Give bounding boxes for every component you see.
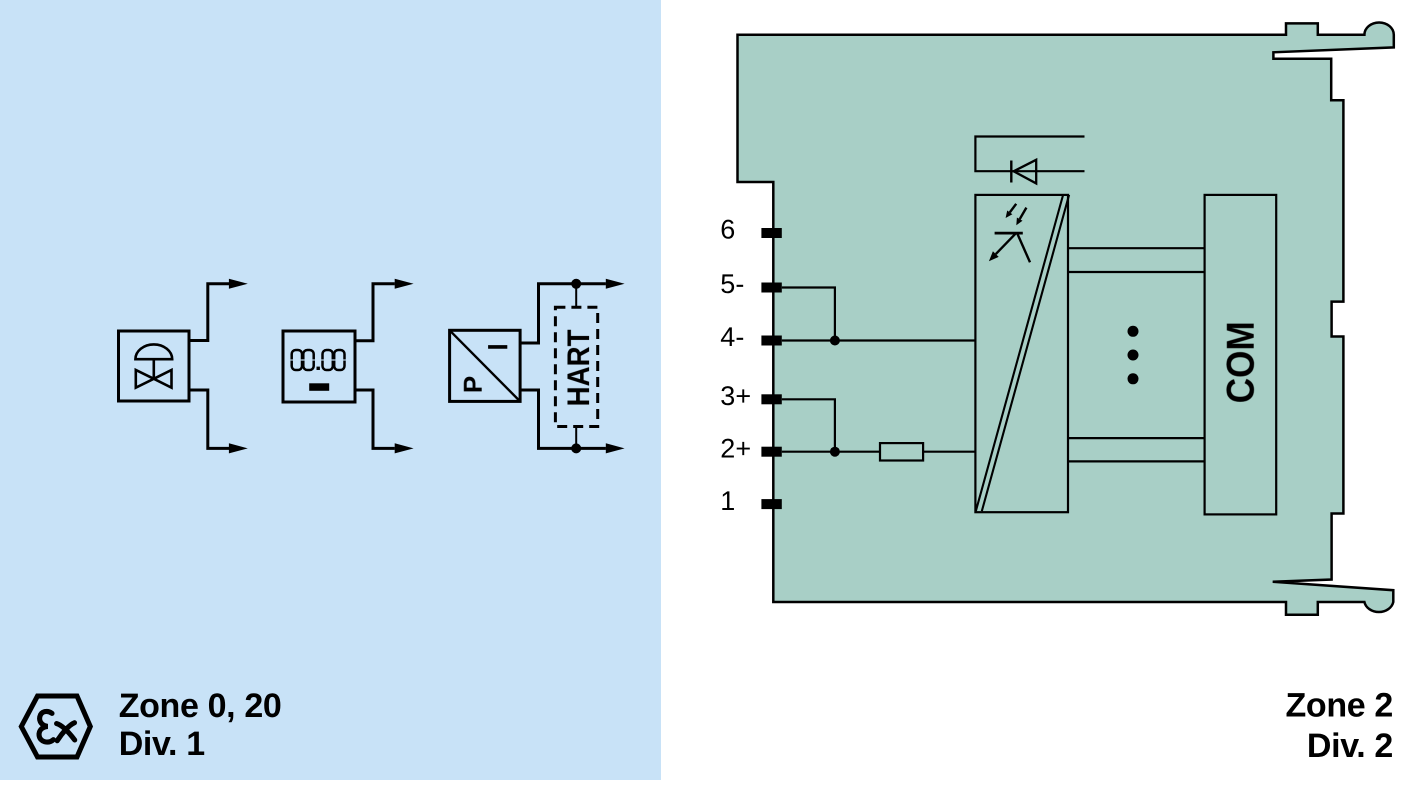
svg-text:3+: 3+ (720, 381, 751, 411)
svg-text:6: 6 (720, 215, 735, 245)
bus double line lower (1068, 438, 1205, 461)
Ex hexagon logo (21, 696, 90, 757)
wire P/I bottom (520, 390, 606, 448)
svg-text:Zone 0, 20: Zone 0, 20 (119, 687, 282, 725)
bus dot 1 (1128, 326, 1139, 337)
Ex logo epsilon (39, 711, 53, 742)
wire display bottom (355, 390, 395, 448)
terminal 5- (761, 283, 781, 293)
junction dot bottom (571, 443, 581, 453)
svg-text:Div. 1: Div. 1 (119, 725, 205, 763)
svg-text:Zone 2: Zone 2 (1286, 686, 1393, 724)
svg-text:1: 1 (720, 486, 735, 516)
valve actuator dome (135, 344, 172, 359)
wire P/I top (520, 284, 606, 343)
junction dot 2+ (830, 447, 840, 457)
arrow P/I top (606, 279, 625, 289)
arrow P/I bottom (606, 443, 625, 453)
arrow display bottom (395, 443, 414, 453)
wire 5- (782, 288, 835, 341)
zone 0 blue background panel (0, 0, 661, 780)
svg-text:4-: 4- (720, 322, 744, 352)
display cursor bar (309, 383, 329, 391)
svg-text:5-: 5- (720, 269, 744, 299)
display digit 0 (3rd) (323, 350, 333, 370)
bus double line upper (1068, 248, 1205, 272)
valve bowtie body (136, 370, 172, 388)
display digit 0 (1st) (292, 350, 302, 370)
valve stem (153, 359, 156, 379)
bus dot 3 (1128, 373, 1139, 384)
bus dot 2 (1128, 350, 1139, 361)
isolation barrier box U1 (975, 195, 1068, 512)
display digit 0 (4th) (334, 350, 344, 370)
terminal 6 (761, 228, 781, 238)
svg-text:COM: COM (1220, 321, 1263, 403)
svg-text:2+: 2+ (720, 433, 751, 463)
resistor R (880, 443, 923, 460)
arrow display top (395, 279, 414, 289)
HART connector bottom (575, 427, 577, 449)
arrow valve bottom (229, 443, 248, 453)
wire 4- (782, 339, 976, 341)
LED diode triangle (1014, 160, 1037, 184)
wire valve bottom (189, 390, 229, 448)
module body (green housing) (738, 22, 1394, 614)
wire display top (355, 284, 395, 341)
wire valve top (189, 284, 229, 341)
junction dot 4- (830, 336, 840, 346)
LED feedback loop wire (975, 137, 1084, 172)
terminal 3+ (761, 394, 781, 404)
P/I converter box (450, 330, 520, 401)
valve symbol (actuated valve) box (119, 331, 190, 401)
seven segment notches (290, 359, 346, 360)
COM box (1205, 195, 1277, 515)
wire 3+ (782, 399, 835, 451)
terminal 4- (761, 336, 781, 346)
display decimal point (317, 367, 320, 370)
phototransistor collector (1018, 234, 1031, 262)
arrow valve top (229, 279, 248, 289)
P/I diagonal (450, 330, 520, 401)
display digit 0 (2nd) (303, 350, 313, 370)
terminal 2+ (761, 447, 781, 457)
svg-text:P: P (458, 376, 488, 393)
svg-text:Div. 2: Div. 2 (1307, 727, 1393, 765)
Ex logo x (57, 723, 75, 741)
junction dot top (571, 279, 581, 289)
isolation diagonal double line (976, 195, 1069, 511)
phototransistor base bar (995, 232, 1023, 235)
display indicator box (283, 331, 355, 402)
phototransistor emitter with arrow (996, 234, 1016, 254)
svg-text:HART: HART (560, 329, 596, 406)
terminal 1 (761, 499, 781, 509)
label I (rotated bar) (488, 345, 507, 349)
wire 2+ right (923, 451, 975, 453)
HART connector top (575, 284, 577, 308)
HART dashed box (555, 307, 597, 426)
optocoupler light arrow 1 (1010, 204, 1016, 213)
LED diode cathode bar (1010, 161, 1012, 183)
optocoupler light arrow 2 (1020, 208, 1027, 220)
wire 2+ left (782, 451, 880, 453)
